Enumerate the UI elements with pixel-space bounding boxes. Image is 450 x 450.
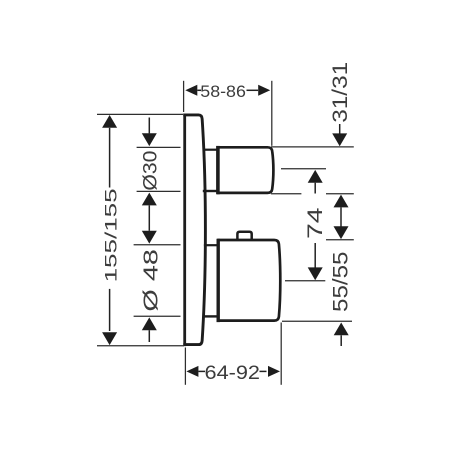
dimension 58-86 left arrow: [185, 85, 197, 96]
svg-text:31/31: 31/31: [329, 62, 352, 123]
extension line: 64-92 left: [184, 348, 186, 385]
extension line A: upper knob top right: [271, 146, 354, 148]
svg-text:Ø30: Ø30: [140, 150, 162, 190]
svg-text:55/55: 55/55: [330, 252, 353, 313]
extension line: 64-92 right: [280, 323, 282, 385]
dimension 74 arrow down: [308, 267, 323, 280]
dimension 155/155 stem lower: [109, 289, 111, 331]
extension line B: upper knob bottom right (right segment): [326, 193, 354, 195]
dimension 58-86 stem right: [247, 89, 259, 91]
extension line: 58-86 left: [183, 81, 185, 112]
dimension 58-86 stem left: [197, 89, 201, 91]
extension line C: lower knob top right: [326, 239, 354, 241]
dimension O30 arrow up: [142, 193, 157, 206]
dimension 55/55 arrow up: [334, 323, 349, 336]
svg-text:64-92: 64-92: [205, 362, 261, 384]
svg-text:58-86: 58-86: [200, 82, 246, 101]
dimension 58-86 right arrow: [258, 85, 270, 96]
dimension O30 arrow down: [142, 133, 157, 146]
dimension 74 arrow up: [308, 170, 323, 183]
svg-text:155/155: 155/155: [102, 188, 120, 282]
svg-text:Ø 48: Ø 48: [140, 249, 162, 312]
dimension 155/155 arrow up: [102, 115, 117, 128]
dimension O30 stem above: [148, 118, 150, 134]
dimension 74 stem lower: [314, 243, 316, 268]
dimension 74 stem upper: [314, 183, 316, 194]
svg-text:74: 74: [303, 207, 327, 239]
extension line: lower neck bottom (O48 bottom): [134, 315, 181, 317]
dimension 31/31 arrow down: [332, 133, 347, 146]
extension line: upper knob centre (74 top): [281, 168, 326, 170]
dimension 55/55 stem below: [340, 335, 342, 346]
lower knob tab: [237, 232, 251, 240]
dimension 31/31 stem: [339, 124, 341, 134]
upper knob body: [217, 146, 273, 194]
dimension 64-92 stem left: [198, 370, 205, 372]
gap dimension stem: [340, 207, 342, 227]
gap dimension arrow down (at line C): [334, 226, 349, 239]
dimension 64-92 left arrow: [186, 366, 198, 377]
lower knob neck: [204, 245, 218, 316]
shared stem between O30 and O48: [148, 205, 150, 230]
dimension 155/155 stem upper: [109, 128, 111, 188]
extension line: plate top-left (155/155 top): [97, 113, 183, 115]
extension line: lower neck top (O48 top): [134, 244, 181, 246]
dimension 155/155 arrow down: [102, 332, 117, 345]
dimension O48 arrow up: [142, 317, 157, 330]
wall plate (side profile): [183, 114, 205, 347]
extension line D: lower knob bottom right: [282, 320, 352, 322]
dimension O48 stem below: [148, 330, 150, 342]
extension line B: upper knob bottom right (left segment): [271, 193, 302, 195]
dimension 64-92 right arrow: [268, 366, 280, 377]
dimension 64-92 stem right: [260, 370, 267, 372]
upper knob neck: [203, 150, 218, 191]
extension line: 58-86 right: [271, 81, 273, 146]
extension line: upper neck top (O30 top): [137, 146, 181, 148]
gap dimension arrow up (at line B): [334, 195, 349, 208]
extension line: lower knob centre (74 bottom): [285, 280, 325, 282]
lower knob body: [217, 239, 280, 322]
dimension O48 arrow down: [142, 231, 157, 244]
extension line: upper neck bottom (O30 bottom): [137, 190, 181, 192]
extension line: plate bottom-left (155/155 bottom): [97, 345, 184, 347]
